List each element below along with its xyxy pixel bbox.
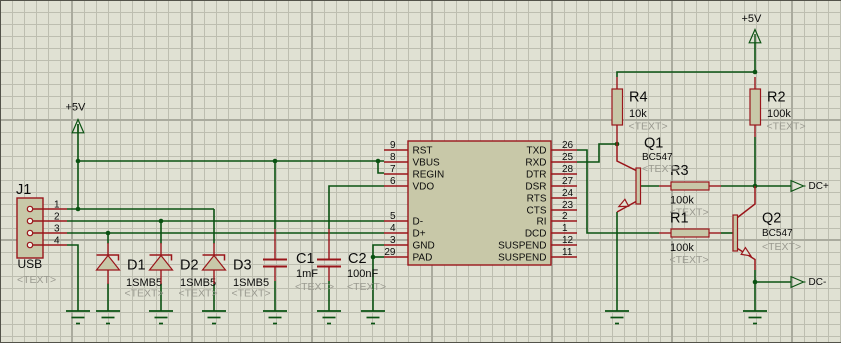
- ground D3: [202, 311, 226, 324]
- svg-text:DTR: DTR: [526, 170, 547, 181]
- label Q1 value BC547: [642, 152, 673, 163]
- svg-text:100nF: 100nF: [347, 268, 378, 280]
- svg-text:<TEXT>: <TEXT>: [767, 121, 806, 133]
- label R1 text placeholder: [670, 254, 709, 266]
- node junction +5V/VBUS rail: [76, 159, 81, 164]
- svg-text:24: 24: [562, 188, 574, 199]
- label R2 text placeholder: [767, 121, 806, 133]
- node junction GND/PAD: [371, 255, 376, 260]
- svg-text:29: 29: [384, 247, 396, 258]
- svg-text:R2: R2: [767, 90, 786, 106]
- wire J1 pin 3 to D+: [67, 232, 384, 234]
- connector J1 pins: [33, 209, 67, 245]
- svg-text:1: 1: [562, 223, 568, 234]
- ground PAD: [361, 311, 385, 324]
- label R3 value: [670, 195, 694, 207]
- node junction DC+: [753, 184, 758, 189]
- svg-text:28: 28: [562, 164, 574, 175]
- svg-text:D-: D-: [413, 217, 424, 228]
- node junction +5V right: [753, 70, 758, 75]
- svg-text:11: 11: [562, 247, 573, 258]
- wire +5V right rail: [617, 72, 755, 77]
- svg-text:3: 3: [54, 224, 60, 235]
- svg-text:<TEXT>: <TEXT>: [629, 121, 668, 133]
- ground D2: [149, 311, 173, 324]
- svg-text:DSR: DSR: [525, 182, 546, 193]
- label J1 value USB: [18, 257, 43, 271]
- label R2 value: [767, 108, 791, 120]
- wire VBUS rail: [78, 160, 384, 162]
- svg-text:SUSPEND: SUSPEND: [498, 253, 546, 264]
- svg-text:<TEXT>: <TEXT>: [762, 241, 801, 253]
- svg-text:1mF: 1mF: [296, 268, 318, 280]
- wire Q1 emitter to ground: [616, 212, 618, 311]
- svg-text:<TEXT>: <TEXT>: [347, 281, 386, 293]
- svg-text:100k: 100k: [767, 108, 791, 120]
- svg-text:C2: C2: [348, 251, 367, 267]
- op-amp U1 right pins: [551, 150, 577, 257]
- wire D3 to ground: [213, 284, 215, 312]
- node junction +5V on J1 pin 1: [76, 207, 81, 212]
- label J1 reference: [16, 182, 31, 198]
- wire R3 to DC+ node: [721, 185, 755, 187]
- label R3 text placeholder: [670, 207, 709, 219]
- svg-text:100k: 100k: [670, 242, 694, 254]
- label D3 reference: [233, 258, 252, 274]
- label Q1 text placeholder: [642, 163, 681, 175]
- wire R1 to Q2 base: [721, 232, 733, 234]
- label D2 reference: [180, 258, 199, 274]
- pin numbers U1 right: [562, 140, 574, 258]
- transistor Q1: [617, 144, 641, 212]
- label C1 text placeholder: [295, 281, 334, 293]
- wire C1 to ground: [274, 281, 276, 311]
- svg-text:2: 2: [562, 211, 568, 222]
- svg-text:GND: GND: [413, 241, 435, 252]
- wire D1 drop: [107, 233, 109, 244]
- node junction D2/D-: [159, 219, 164, 224]
- svg-text:DC+: DC+: [809, 181, 829, 192]
- svg-text:2: 2: [54, 212, 60, 223]
- svg-text:10k: 10k: [629, 108, 647, 120]
- diode D3: [203, 243, 226, 284]
- pin names U1 left: [413, 146, 445, 264]
- label J1 text placeholder: [17, 274, 56, 286]
- capacitor C2: [317, 229, 341, 281]
- terminal DC+: [791, 181, 829, 192]
- label D3 text placeholder: [232, 288, 271, 300]
- svg-text:3: 3: [390, 235, 396, 246]
- diode D2: [150, 243, 173, 284]
- wire Q1 base to R3: [641, 185, 660, 187]
- ground DC-: [743, 311, 767, 324]
- svg-text:DCD: DCD: [525, 229, 547, 240]
- ground C1: [263, 311, 287, 324]
- wire D2 to ground: [160, 284, 162, 312]
- node junction D1/D+: [106, 231, 111, 236]
- svg-text:C1: C1: [296, 251, 315, 267]
- resistor R4: [612, 77, 623, 144]
- svg-text:BC547: BC547: [642, 152, 673, 163]
- diode D1: [97, 243, 120, 284]
- svg-text:+5V: +5V: [66, 102, 87, 114]
- wire DC- branch: [755, 281, 791, 283]
- svg-text:27: 27: [562, 176, 574, 187]
- resistor R3: [659, 182, 721, 190]
- wire R2 to DC+ node: [754, 137, 756, 186]
- wire PAD stub link: [373, 256, 384, 258]
- ground J1: [66, 311, 90, 324]
- svg-text:Q1: Q1: [644, 136, 663, 152]
- wire Q2 emitter node: [754, 270, 756, 282]
- label Q2 reference: [762, 211, 781, 227]
- node junction C1/VBUS rail: [273, 159, 278, 164]
- label Q2 value BC547: [762, 228, 793, 239]
- svg-text:D3: D3: [233, 258, 252, 274]
- label R1 value: [670, 242, 694, 254]
- transistor Q2: [733, 186, 755, 270]
- svg-text:12: 12: [562, 235, 574, 246]
- wire J1 pin 2 to D-: [67, 220, 384, 222]
- svg-text:D+: D+: [413, 229, 426, 240]
- wire D2 drop: [160, 221, 162, 244]
- node junction REGIN branch: [376, 159, 381, 164]
- label C2 text placeholder: [347, 281, 386, 293]
- svg-text:26: 26: [562, 140, 574, 151]
- svg-text:<TEXT>: <TEXT>: [17, 274, 56, 286]
- terminal DC-: [791, 277, 826, 288]
- pin numbers J1: [54, 200, 60, 247]
- svg-text:<TEXT>: <TEXT>: [670, 254, 709, 266]
- ground Q1 emitter: [605, 311, 629, 324]
- svg-text:+5V: +5V: [742, 13, 763, 25]
- wire DC+ branch: [755, 185, 791, 187]
- label Q1 reference: [644, 136, 663, 152]
- svg-text:RXD: RXD: [525, 158, 546, 169]
- wire +5V rail to J1 pin 1: [77, 124, 79, 209]
- svg-text:BC547: BC547: [762, 228, 793, 239]
- label R3 reference: [670, 163, 689, 179]
- svg-text:DC-: DC-: [809, 277, 827, 288]
- node junction R4/Q1 collector: [615, 142, 620, 147]
- svg-text:RI: RI: [537, 217, 547, 228]
- svg-text:RST: RST: [413, 146, 433, 157]
- label D3 value: [233, 277, 269, 289]
- svg-text:25: 25: [562, 152, 574, 163]
- label C2 reference: [348, 251, 367, 267]
- svg-text:CTS: CTS: [527, 206, 547, 217]
- svg-text:USB: USB: [18, 257, 43, 271]
- svg-text:1: 1: [54, 200, 60, 211]
- wire RXD to Q1 collector node: [577, 144, 615, 162]
- power +5V left: [66, 102, 87, 134]
- svg-text:<TEXT>: <TEXT>: [642, 163, 681, 175]
- svg-text:6: 6: [390, 176, 396, 187]
- resistor R2: [750, 77, 761, 137]
- svg-text:<TEXT>: <TEXT>: [295, 281, 334, 293]
- svg-text:REGIN: REGIN: [413, 170, 445, 181]
- svg-text:TXD: TXD: [527, 146, 547, 157]
- label R4 text placeholder: [629, 121, 668, 133]
- svg-text:VDO: VDO: [413, 182, 435, 193]
- label D1 reference: [127, 258, 146, 274]
- label C1 value: [296, 268, 318, 280]
- pin numbers U1 left: [384, 140, 396, 258]
- svg-text:8: 8: [390, 152, 396, 163]
- svg-text:R1: R1: [670, 211, 689, 227]
- connector J1 body: [17, 198, 43, 258]
- op-amp U1 left pins: [384, 150, 408, 257]
- svg-text:9: 9: [390, 140, 396, 151]
- svg-text:7: 7: [390, 164, 396, 175]
- svg-text:4: 4: [390, 223, 396, 234]
- label R2 reference: [767, 90, 786, 106]
- label C1 reference: [296, 251, 315, 267]
- wire Q2 node to ground: [754, 282, 756, 311]
- ground D1: [96, 311, 120, 324]
- svg-text:SUSPEND: SUSPEND: [498, 241, 546, 252]
- svg-text:RTS: RTS: [527, 194, 547, 205]
- svg-text:VBUS: VBUS: [413, 158, 441, 169]
- label D2 value: [180, 277, 216, 289]
- wire D3 drop: [213, 209, 215, 244]
- label D1 text placeholder: [125, 288, 164, 300]
- wire VDO to C2: [329, 186, 384, 229]
- wire C2 to ground: [328, 281, 330, 311]
- svg-text:23: 23: [562, 200, 574, 211]
- wire TXD to R1: [577, 150, 659, 233]
- pin names U1 right: [498, 146, 547, 264]
- label R4 reference: [629, 90, 648, 106]
- op-amp U1 body: [408, 141, 551, 265]
- label R4 value: [629, 108, 647, 120]
- wire +5V right stem: [754, 43, 756, 72]
- svg-text:100k: 100k: [670, 195, 694, 207]
- svg-text:<TEXT>: <TEXT>: [232, 288, 271, 300]
- svg-text:4: 4: [54, 236, 60, 247]
- svg-text:<TEXT>: <TEXT>: [125, 288, 164, 300]
- wire GND pin branch: [373, 245, 384, 311]
- wire J1 pin 4 to ground: [67, 245, 78, 311]
- svg-text:PAD: PAD: [413, 253, 433, 264]
- wire D1 to ground: [107, 284, 109, 312]
- label D1 value: [126, 277, 162, 289]
- wire C1 drop: [274, 161, 276, 229]
- svg-text:<TEXT>: <TEXT>: [179, 288, 218, 300]
- wire REGIN branch: [378, 161, 384, 173]
- label D2 text placeholder: [179, 288, 218, 300]
- power +5V right: [742, 13, 763, 43]
- svg-text:J1: J1: [16, 182, 31, 198]
- resistor R1: [659, 229, 721, 237]
- svg-text:D2: D2: [180, 258, 199, 274]
- svg-text:D1: D1: [127, 258, 146, 274]
- svg-text:Q2: Q2: [762, 211, 781, 227]
- label Q2 text placeholder: [762, 241, 801, 253]
- wire J1 pin 1 to D3: [67, 208, 214, 210]
- label R1 reference: [670, 211, 689, 227]
- label C2 value: [347, 268, 378, 280]
- capacitor C1: [263, 229, 287, 281]
- svg-text:5: 5: [390, 211, 396, 222]
- svg-text:R4: R4: [629, 90, 648, 106]
- node junction DC-: [753, 280, 758, 285]
- ground C2: [317, 311, 341, 324]
